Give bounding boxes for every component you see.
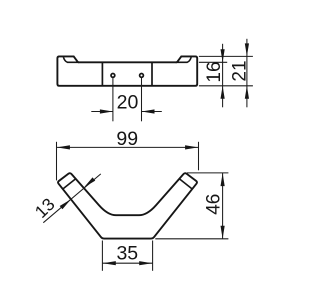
svg-text:16: 16 — [204, 61, 225, 82]
bottom view: right tip division line — [179, 179, 192, 189]
bottom view: left tip division line — [63, 179, 76, 189]
top view: right mounting hole — [140, 74, 144, 78]
dim 99: left extension line — [56, 142, 58, 181]
dim 35: right extension line — [152, 241, 154, 271]
top view: left division line — [101, 62, 103, 86]
dim 13: dimension line — [43, 174, 101, 223]
arrow: dim 16 top — [221, 49, 225, 62]
arrow: dim 20 left — [100, 109, 113, 113]
arrow: dim 99 right — [185, 145, 198, 149]
arrow: dim 35 right — [139, 261, 152, 265]
arrow: dim 16 bottom — [221, 86, 225, 99]
dim 20: left extension line — [112, 78, 114, 122]
arrow: dim 13 lower — [60, 199, 71, 209]
dim 35: dimension line — [102, 262, 152, 264]
dim 46: top extension line — [187, 172, 229, 174]
dim 46: bottom extension line — [155, 238, 228, 240]
dim 20: dimension line left — [91, 111, 113, 113]
ext line: bar bottom edge — [199, 85, 253, 87]
svg-text:20: 20 — [117, 91, 139, 113]
arrow: dim 99 left — [57, 145, 70, 149]
arrow: dim 13 upper — [84, 177, 95, 187]
dim 20: dimension line right — [142, 111, 162, 113]
svg-text:99: 99 — [116, 128, 138, 150]
arrow: dim 20 right — [142, 109, 155, 113]
dim 21: dimension line — [246, 39, 248, 108]
arrow: dim 21 top — [245, 43, 249, 56]
dim 99: right extension line — [198, 142, 200, 171]
svg-text:13: 13 — [31, 194, 59, 222]
top view: left mounting hole — [111, 74, 115, 78]
svg-text:21: 21 — [230, 60, 251, 81]
svg-text:46: 46 — [203, 194, 224, 215]
bottom view: V-hook body outline — [58, 173, 197, 238]
ext line: bar top edge — [199, 61, 227, 63]
ext line: tab top edge — [199, 55, 253, 57]
dim 99: dimension line — [57, 146, 199, 148]
top view: right division line — [151, 62, 153, 86]
top view: left tab inner fillet — [63, 57, 79, 62]
arrow: dim 46 top — [221, 173, 225, 186]
dim 35: left extension line — [101, 241, 103, 271]
dim 16: dimension line — [222, 44, 224, 108]
top view: right tab inner fillet — [176, 57, 192, 62]
arrow: dim 35 left — [103, 261, 116, 265]
dim 20: right extension line — [141, 78, 143, 122]
dim 46: dimension line — [222, 173, 224, 239]
arrow: dim 46 bottom — [221, 226, 225, 239]
svg-text:35: 35 — [116, 242, 138, 264]
arrow: dim 21 bottom — [245, 86, 249, 99]
top view: mounting bar outline — [57, 56, 197, 85]
